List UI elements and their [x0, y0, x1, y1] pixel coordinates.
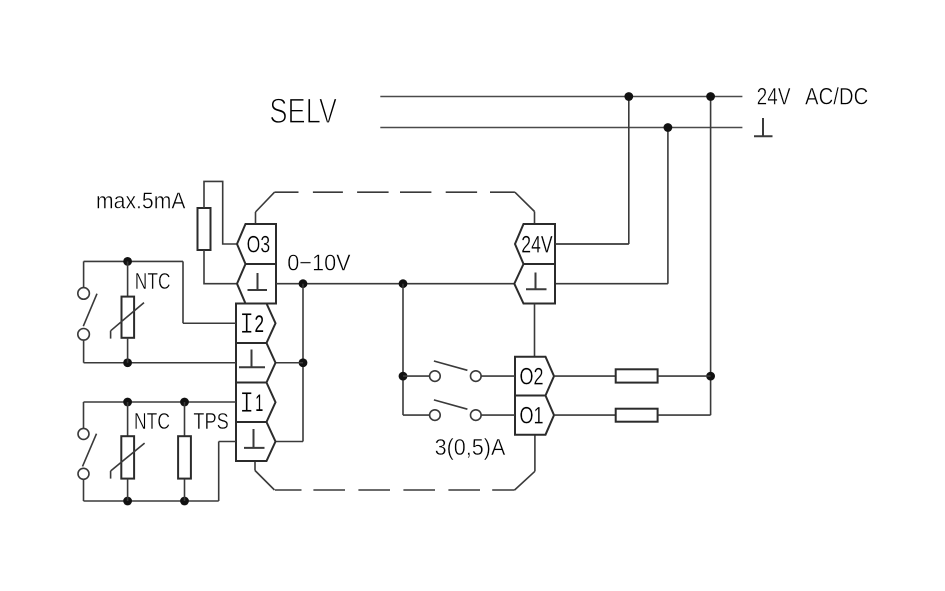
- svg-text:2: 2: [255, 311, 265, 338]
- svg-text:24V: 24V: [521, 231, 552, 258]
- svg-text:1: 1: [255, 390, 263, 417]
- svg-text:O2: O2: [520, 364, 544, 391]
- svg-text:AC/DC: AC/DC: [805, 83, 868, 110]
- svg-text:0−10V: 0−10V: [287, 250, 351, 276]
- svg-text:max.5mA: max.5mA: [96, 187, 186, 213]
- svg-text:O1: O1: [520, 403, 544, 430]
- svg-text:O3: O3: [247, 231, 271, 258]
- svg-text:SELV: SELV: [269, 92, 337, 131]
- svg-text:NTC: NTC: [134, 408, 170, 434]
- svg-text:NTC: NTC: [135, 268, 171, 294]
- svg-text:3(0,5)A: 3(0,5)A: [435, 434, 506, 460]
- svg-text:24V: 24V: [757, 83, 792, 110]
- svg-text:TPS: TPS: [193, 408, 229, 434]
